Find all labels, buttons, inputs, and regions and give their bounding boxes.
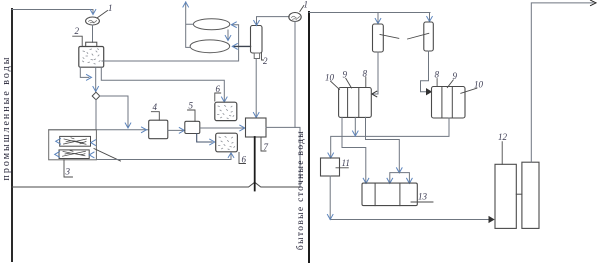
label 4 (151, 112, 159, 121)
grinder 3a (60, 136, 91, 146)
wire: column down to flotation tank 7 (255, 59, 257, 117)
wire: node to down-arrow at splitter (100, 96, 128, 127)
right channel wall (бытовые сточные воды) (308, 12, 310, 262)
wire: pump right to column top (257, 17, 290, 24)
clarifier 12 right (522, 162, 539, 228)
wire: left group section-10 drain to sludge beds (342, 117, 366, 182)
flotation column 2 (251, 26, 263, 54)
wire drum1 to drum2 (227, 30, 229, 39)
svg-text:5: 5 (189, 101, 194, 111)
label 3 (64, 160, 73, 177)
wire 4 to 5 (168, 129, 185, 131)
label 7 (261, 137, 266, 151)
wire: tank 11 to clarifier 12 (330, 176, 491, 220)
wire: tank 2 to settler riser (102, 25, 239, 61)
tank 2 neck (86, 42, 97, 46)
biofilter group right (432, 87, 466, 119)
grinder 3b (59, 150, 89, 159)
flotation tank 7 (246, 118, 267, 137)
degasser B (424, 22, 434, 51)
svg-text:3: 3 (65, 167, 71, 177)
label 1 (left pump) (97, 11, 108, 19)
bridge between clarifiers (516, 193, 522, 195)
svg-text:8: 8 (363, 69, 368, 79)
settler drum lower (190, 40, 230, 53)
svg-text:12: 12 (498, 132, 508, 142)
reagent tank 6 (upper, speckled) (215, 102, 237, 120)
settler bracket and vent arrow (186, 2, 194, 47)
svg-text:2: 2 (263, 56, 268, 66)
svg-text:7: 7 (264, 142, 269, 152)
degasser A (373, 24, 384, 52)
wire: pump 1 to tank 2 (92, 25, 94, 42)
wire: tank 2 main outlet down to node (95, 67, 97, 91)
svg-text:9: 9 (453, 71, 458, 81)
svg-text:1: 1 (304, 0, 309, 10)
svg-text:10: 10 (474, 80, 484, 90)
svg-text:10: 10 (325, 73, 335, 83)
wire: unit 3 to reagent tank 6 lower (96, 154, 231, 160)
outlet wire to discharge (top right) (531, 3, 593, 162)
biofilter group left (339, 88, 372, 118)
svg-text:11: 11 (342, 158, 350, 168)
contact tank 11 (321, 158, 340, 176)
wire 5 to flotation tank 7 (200, 127, 245, 129)
wire: tank 2 to reagent tank 6 upper (101, 67, 224, 100)
labels 8 9 10 (right group) (436, 79, 438, 87)
wire: top feed to degassers (309, 12, 430, 14)
svg-text:13: 13 (418, 192, 428, 202)
bottom return wire with hop (12, 182, 300, 187)
svg-text:6: 6 (242, 155, 247, 165)
wire: degasser A to biofilter left (373, 52, 378, 94)
label 2 (column) (262, 53, 264, 60)
left channel wall (промышленные воды) (11, 9, 13, 261)
svg-text:4: 4 (153, 102, 158, 112)
leader diagonal from unit 3 (94, 149, 121, 162)
junction node (diamond) (92, 92, 100, 100)
label 6 (upper) (215, 93, 221, 101)
label 6 (lower) (239, 153, 246, 164)
label 1 (right pump) (300, 6, 304, 12)
wire: left group section-8 drain to sludge beds tee (366, 117, 400, 171)
label 2 (tank) (73, 36, 83, 45)
main wire to mixer 4 (49, 129, 149, 131)
svg-text:6: 6 (216, 84, 221, 94)
unit 3 outer housing (49, 130, 97, 160)
wire: left group mid section drain (354, 117, 356, 135)
wire: node down to unit 3 (95, 100, 97, 130)
wire: inlet to pump 1 left (12, 10, 93, 13)
svg-text:1: 1 (108, 3, 113, 13)
reagent tank 6 (lower, speckled) (216, 133, 238, 152)
svg-text:2: 2 (75, 26, 80, 36)
settler drum upper (193, 19, 229, 30)
wire: pump right suction down (294, 22, 296, 128)
wire: tank 7 out right then down (266, 127, 300, 186)
collector wire to contact tank 11 (331, 118, 449, 157)
chamber 5 (185, 121, 200, 133)
mixer 4 (149, 120, 168, 139)
label 13 (411, 201, 433, 203)
pump 1 (right) (289, 13, 301, 22)
wire: tank 2 left outlet loop (80, 67, 89, 77)
sludge beds 13 (362, 183, 417, 206)
labels 10 9 8 (left group) (331, 81, 340, 89)
pump 1 (left) (86, 17, 100, 25)
svg-text:9: 9 (343, 70, 348, 80)
label 5 (188, 110, 196, 121)
svg-text:промышленные воды: промышленные воды (1, 56, 12, 181)
label 11 (336, 167, 348, 169)
clarifier 12 left (495, 164, 516, 228)
svg-text:бытовые сточные воды: бытовые сточные воды (295, 130, 306, 250)
wire: riser to flotation column at drum2 level (233, 45, 250, 47)
wire: degasser B to biofilter right (421, 51, 430, 92)
tank 2 (sand trap, speckled) (79, 47, 104, 68)
label 12 (501, 142, 503, 165)
sludge line from tank 7 (254, 137, 256, 191)
wire 5 down to reagent tank 6 lower (197, 134, 212, 143)
svg-text:8: 8 (435, 70, 440, 80)
